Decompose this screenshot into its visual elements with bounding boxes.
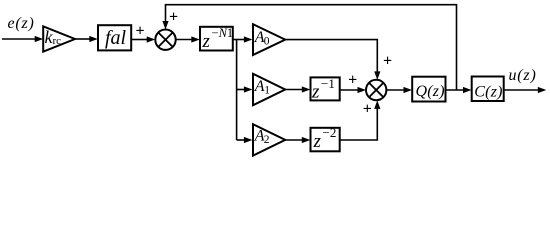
block z^-N1 (delay) — [200, 26, 233, 52]
wire: A1 to z^-1 — [285, 86, 310, 92]
svg-text:z: z — [311, 82, 320, 103]
wire: feedback from junction up and across to S1 — [162, 5, 456, 90]
summing junction S1 — [155, 30, 175, 50]
svg-text:+: + — [348, 72, 357, 89]
gain A0 — [253, 24, 285, 55]
svg-text:z: z — [202, 31, 211, 52]
wire: S2 to Q(z) — [386, 87, 412, 93]
block z^-2 (delay) — [311, 125, 340, 152]
wire: A2 to z^-2 — [285, 137, 310, 143]
wire: A0 output right then down into summer S2 top — [285, 40, 380, 80]
gain A2 — [253, 124, 285, 155]
wire: fal to summer S1 — [131, 36, 155, 42]
wire: input into k_rc — [2, 36, 43, 42]
svg-text:+: + — [169, 9, 178, 26]
gain A1 — [253, 74, 285, 105]
wire: branch to A2 — [237, 137, 253, 143]
svg-text:−1: −1 — [321, 76, 335, 91]
svg-text:−N1: −N1 — [212, 26, 234, 40]
svg-text:e(z): e(z) — [8, 15, 35, 32]
wire: z^-2 right then up into summer S2 bottom — [340, 100, 381, 140]
svg-text:fal: fal — [105, 27, 127, 49]
svg-text:Q(z): Q(z) — [416, 83, 445, 100]
wire: z^-N1 output to A0 — [233, 36, 253, 42]
summing junction S2 — [366, 80, 386, 100]
wire: k_rc to fal — [75, 36, 98, 42]
svg-text:C(z): C(z) — [474, 83, 502, 100]
svg-text:z: z — [313, 131, 322, 152]
block C(z) — [472, 77, 504, 102]
wire: branch to A1 — [237, 86, 253, 92]
svg-text:−2: −2 — [323, 125, 337, 140]
svg-text:u(z): u(z) — [509, 67, 537, 84]
svg-text:0: 0 — [264, 36, 270, 48]
wire: Q(z) to C(z) with junction tap — [446, 87, 472, 93]
block Q(z) — [412, 77, 445, 102]
wire: z^-1 to summer S2 — [340, 87, 366, 93]
block z^-1 (delay) — [311, 76, 340, 103]
svg-text:1: 1 — [264, 84, 270, 96]
wire: vertical branch down to A1 and A2 rows — [236, 40, 238, 141]
svg-text:+: + — [363, 100, 372, 117]
block fal — [98, 25, 131, 50]
svg-text:A: A — [254, 78, 265, 95]
svg-text:+: + — [135, 22, 144, 39]
gain k_rc — [43, 26, 75, 51]
wire: S1 to z^-N1 block — [176, 36, 200, 42]
wire: C(z) to output u(z) — [504, 87, 547, 93]
svg-text:2: 2 — [264, 134, 270, 146]
svg-text:rc: rc — [53, 35, 62, 47]
svg-text:+: + — [383, 52, 392, 69]
